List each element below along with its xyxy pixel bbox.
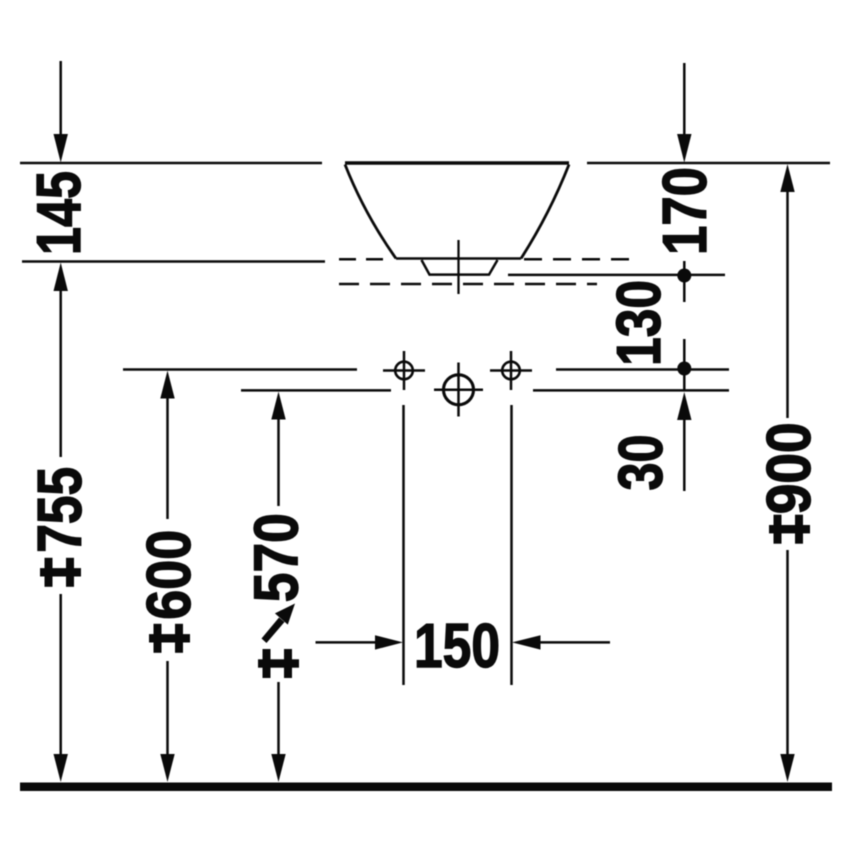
basin bottom edge <box>396 257 521 260</box>
tap hole left circle <box>395 362 413 380</box>
tap hole left cross <box>383 351 425 390</box>
adjust symbol of 755 <box>40 558 81 587</box>
dim line 170/130/30 top stem <box>683 63 686 136</box>
dashed counter line upper right <box>524 258 638 261</box>
arrowhead up at line C x278 <box>271 392 285 420</box>
basin right wall <box>521 165 569 259</box>
dashed counter line lower <box>339 283 597 286</box>
line A foot-bottom level <box>508 274 725 277</box>
145 lower reference line <box>22 260 325 263</box>
dim line 900 upper stem <box>786 191 789 418</box>
dot terminator at line A x684 <box>677 269 691 283</box>
150 dimension tail left <box>316 641 377 644</box>
basin foot (drain trapezoid) <box>422 260 498 275</box>
arrowhead down at top line x684 <box>677 134 691 163</box>
svg-text:600: 600 <box>135 530 204 620</box>
top reference line right segment <box>587 162 830 165</box>
tap hole right circle <box>502 362 520 380</box>
dim line 145/755 middle stem <box>59 291 62 457</box>
basin left wall <box>345 165 396 259</box>
dim line 600 upper stem <box>166 397 169 519</box>
dim line 600 lower stem <box>166 661 169 755</box>
basin centerline <box>457 240 459 294</box>
arrowhead up at line B x167 <box>160 371 174 399</box>
drain hole circle <box>444 375 474 405</box>
svg-text:130: 130 <box>605 280 674 366</box>
arrowhead up below line C x684 (30 dim) <box>677 392 691 420</box>
svg-text:145: 145 <box>25 171 94 255</box>
line C lower level right <box>533 389 729 392</box>
basin top rim <box>345 161 569 164</box>
svg-text:900: 900 <box>755 422 824 514</box>
dim line 570 upper stem <box>277 418 280 506</box>
arrowhead up at 145 lower line x60 <box>54 263 68 292</box>
floor slab <box>20 783 832 792</box>
arrowhead up at top line x787 (900 dim) <box>780 164 794 192</box>
extension line right (150 dim) <box>510 405 513 685</box>
top reference line left segment <box>20 162 322 165</box>
line B tap-hole level right <box>556 368 729 371</box>
arrowhead left at right ext line (150 dim) <box>512 635 541 649</box>
arrowhead right at left ext line (150 dim) <box>375 635 403 649</box>
dim line 145/755 lower stem <box>59 594 62 755</box>
svg-text:755: 755 <box>26 467 95 553</box>
dim line 130 stem <box>683 339 686 390</box>
150 dimension tail right <box>540 641 610 644</box>
svg-text:570: 570 <box>243 513 312 602</box>
extension line left (150 dim) <box>402 405 405 685</box>
dim line 145/755 upper stem <box>59 61 62 136</box>
adjust symbol of 600 <box>149 624 190 653</box>
svg-text:30: 30 <box>607 435 676 491</box>
arrowhead down at floor x60 <box>54 754 68 782</box>
arrowhead down at floor x278 <box>271 754 285 782</box>
dashed counter line upper left <box>339 258 387 261</box>
dim line 30 tail <box>683 420 686 491</box>
svg-text:150: 150 <box>414 612 500 681</box>
dot terminator at line B x684 <box>677 362 691 376</box>
adjust symbol of 900 <box>769 515 810 544</box>
arrowhead down at floor x787 <box>780 754 794 782</box>
arrowhead down at floor x167 <box>160 754 174 782</box>
svg-text:170: 170 <box>651 167 720 255</box>
line B tap-hole level left <box>123 368 357 371</box>
line C lower level left <box>241 389 391 392</box>
dim line 570 lower stem <box>277 682 280 755</box>
adjust symbol of 570 <box>258 649 299 678</box>
NE arrow of 570 label <box>262 604 296 644</box>
arrowhead down at top line x60 <box>54 134 68 163</box>
tap hole right cross <box>490 351 532 390</box>
dim line 170 lower stub <box>683 261 686 302</box>
drain hole cross <box>434 363 483 417</box>
dim line 900 lower stem <box>786 550 789 755</box>
